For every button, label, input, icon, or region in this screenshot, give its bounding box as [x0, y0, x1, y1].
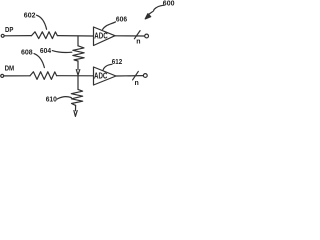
svg-text:604: 604 [40, 48, 51, 55]
resistor R604 [73, 46, 84, 61]
svg-text:n: n [135, 80, 139, 87]
op-amp U612 ADC triangle [94, 67, 117, 85]
leader 604 [52, 51, 72, 53]
figure arrow 600 [149, 5, 164, 14]
svg-text:ADC: ADC [94, 71, 108, 80]
svg-text:DP: DP [5, 27, 14, 34]
wire R610 to ground arrow [75, 105, 77, 110]
bus slash top [134, 31, 140, 39]
svg-text:602: 602 [24, 13, 36, 20]
svg-text:DM: DM [5, 66, 15, 73]
resistor R602 [32, 32, 58, 39]
ground arrow [74, 111, 77, 117]
svg-text:612: 612 [112, 59, 122, 66]
terminal DM [1, 74, 4, 77]
svg-text:610: 610 [46, 97, 57, 104]
wire DM input [4, 75, 30, 77]
wire junction down to R610 [77, 76, 79, 90]
wire R608 to ADC U612 [57, 75, 94, 77]
svg-text:600: 600 [163, 1, 175, 8]
leader 606 [103, 22, 116, 30]
wire U606 output [115, 35, 145, 37]
wire junction down to R604 [77, 36, 79, 46]
resistor R608 [30, 72, 57, 80]
arrowhead onto DM line [76, 70, 80, 75]
svg-text:606: 606 [116, 17, 127, 24]
leader 610 [57, 97, 71, 99]
bus slash bottom [133, 71, 139, 80]
terminal output bottom [143, 74, 147, 78]
terminal output top [145, 34, 149, 38]
leader 608 [34, 54, 44, 68]
svg-text:608: 608 [21, 50, 33, 57]
svg-text:n: n [136, 38, 140, 45]
svg-text:ADC: ADC [94, 31, 108, 40]
leader 612 [103, 64, 112, 70]
leader 602 [37, 15, 47, 29]
terminal DP [1, 34, 4, 37]
wire R602 to ADC U606 [57, 35, 93, 37]
op-amp U606 ADC triangle [94, 27, 116, 46]
wire R604 to arrow [77, 61, 79, 70]
resistor R610 [71, 89, 82, 105]
wire DP input [4, 35, 31, 37]
wire U612 output [116, 75, 143, 77]
